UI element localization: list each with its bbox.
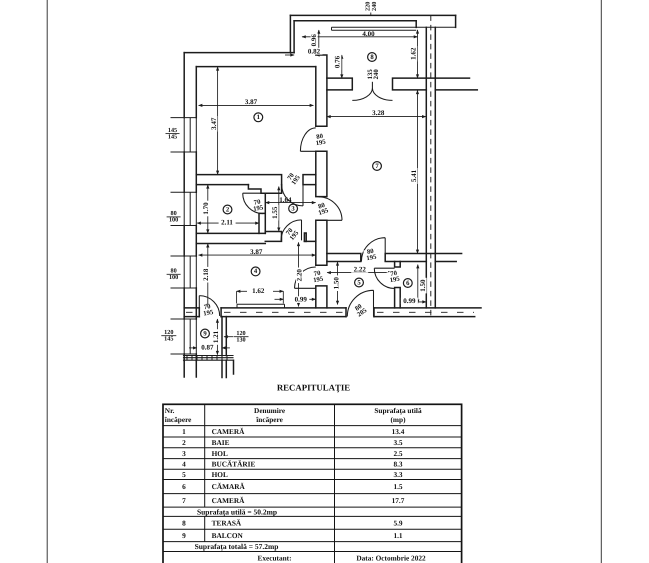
- svg-text:3: 3: [182, 449, 186, 458]
- table row 5 HOL 3.3: [182, 470, 403, 479]
- terrace inner edge double line: [332, 27, 456, 30]
- dim 0.76: [341, 55, 343, 78]
- svg-text:1.21: 1.21: [212, 330, 220, 343]
- svg-text:3.5: 3.5: [393, 438, 402, 447]
- leader arrow for 120/130 label: [224, 336, 233, 338]
- label 1.50 room5 rotated: [332, 275, 340, 291]
- door D9 80/205 entrance room5: [347, 290, 373, 316]
- window label 80/100 lower: [167, 268, 181, 281]
- svg-text:13.4: 13.4: [392, 427, 405, 436]
- svg-text:1: 1: [257, 114, 260, 121]
- svg-text:3.3: 3.3: [393, 470, 402, 479]
- svg-text:CAMERĂ: CAMERĂ: [212, 427, 246, 436]
- label 1.62 window: [250, 287, 267, 295]
- dim 0.82 outward arrows: [285, 54, 325, 56]
- terrace bottom wall with door opening: [327, 78, 435, 90]
- svg-text:100: 100: [169, 274, 178, 281]
- room symbol 3: [289, 204, 298, 213]
- dim 1.55 room3: [278, 187, 280, 232]
- label 3.47 rotated: [210, 116, 218, 132]
- dim 3.87 room4: [199, 254, 316, 256]
- wall stubs below balcony: [184, 360, 233, 377]
- bottom wall door caps: [199, 308, 374, 317]
- room symbol 5: [355, 278, 364, 287]
- dim 2.11 room2: [197, 222, 259, 224]
- door D4 70/195 room3-room4: [281, 220, 302, 241]
- svg-text:240: 240: [371, 2, 378, 11]
- label 0.96 rotated: [310, 33, 318, 49]
- door D11 double 135/240 terrace: [352, 78, 392, 100]
- svg-text:2.18: 2.18: [202, 268, 210, 281]
- svg-text:1.62: 1.62: [252, 287, 265, 295]
- label 0.87 balcony: [199, 344, 216, 352]
- wall room1 bottom / room2 room3 top: [196, 175, 315, 185]
- svg-text:(mp): (mp): [391, 415, 407, 424]
- svg-text:3.47: 3.47: [210, 117, 218, 130]
- label 0.76 rotated: [334, 54, 342, 70]
- svg-text:6: 6: [182, 482, 186, 491]
- room symbol 2: [223, 205, 232, 214]
- svg-text:BAIE: BAIE: [212, 438, 230, 447]
- svg-text:2: 2: [182, 438, 186, 447]
- svg-text:145: 145: [168, 133, 177, 140]
- door label D10 70/195: [200, 303, 215, 318]
- door D4 jamb post: [304, 233, 306, 241]
- svg-text:2.11: 2.11: [221, 218, 233, 226]
- thick block left of door D5: [248, 185, 281, 194]
- svg-text:HOL: HOL: [212, 449, 228, 458]
- svg-text:7: 7: [182, 496, 186, 505]
- balcony right wall: [222, 317, 226, 356]
- wall: left exterior inner line: [195, 67, 197, 361]
- table row 8 TERASA 5.9: [182, 519, 403, 528]
- room symbol 4: [251, 267, 260, 276]
- svg-text:4: 4: [182, 460, 186, 469]
- svg-text:încăpere: încăpere: [164, 415, 192, 424]
- svg-text:1.64: 1.64: [279, 196, 292, 204]
- svg-text:1.50: 1.50: [419, 279, 427, 292]
- svg-text:1.55: 1.55: [271, 206, 279, 219]
- svg-text:1.5: 1.5: [393, 482, 402, 491]
- dim 1.50 room6: [417, 265, 419, 304]
- svg-text:CAMERĂ: CAMERĂ: [212, 496, 246, 505]
- svg-text:BALCON: BALCON: [212, 531, 244, 540]
- label 1.55 rotated: [271, 205, 279, 221]
- wall room2 right / room3 left: [259, 193, 265, 233]
- door D7 80/195 room7-room5: [361, 238, 385, 262]
- party wall right line: [434, 27, 436, 308]
- window label 120/130: [234, 330, 249, 343]
- label 2.18 rotated: [202, 267, 210, 283]
- wall room7 bottom / room5 room6 top: [327, 254, 435, 262]
- bottom exterior wall bottom line: [184, 316, 475, 318]
- svg-text:Denumire: Denumire: [254, 406, 286, 415]
- svg-text:240: 240: [373, 69, 380, 80]
- dim 1.21 balcony: [216, 319, 218, 355]
- label 0.99 room4: [292, 296, 309, 304]
- label 1.21 rotated: [212, 329, 220, 345]
- window label 80/100 upper: [167, 210, 181, 223]
- svg-text:3.87: 3.87: [250, 248, 263, 256]
- label 0.99 room6: [401, 297, 418, 305]
- table row executant / data: [257, 553, 426, 562]
- svg-text:Nr.: Nr.: [165, 406, 175, 415]
- dim 2.22 room5: [327, 272, 392, 274]
- svg-text:HOL: HOL: [212, 470, 228, 479]
- svg-text:0.82: 0.82: [308, 47, 321, 55]
- label 5.41 rotated: [410, 168, 418, 184]
- label 0.82: [306, 47, 323, 55]
- party wall left line: [425, 27, 427, 308]
- terrace parapet left wall: [290, 15, 294, 52]
- neighbour parapet jog verticals: [416, 15, 455, 27]
- window W4 120/145 left wall balcony: [171, 319, 197, 354]
- door label D1 80/195: [314, 133, 327, 148]
- label 135/240 terrace door rotated: [367, 67, 380, 82]
- window label 120/145: [161, 329, 176, 342]
- svg-text:1.1: 1.1: [393, 531, 402, 540]
- dim 0.99 room4: [275, 298, 316, 300]
- svg-text:CĂMARĂ: CĂMARĂ: [212, 482, 246, 491]
- svg-text:1: 1: [182, 427, 186, 436]
- svg-text:încăpere: încăpere: [255, 415, 283, 424]
- svg-text:1.70: 1.70: [202, 202, 210, 215]
- neighbour wall segment right of party wall at room5 level: [435, 254, 461, 262]
- dim 3.28 room7: [327, 116, 426, 118]
- wall room6 left with door D8: [395, 262, 401, 308]
- dim 3.87 room1: [199, 104, 314, 106]
- dim 3.47 room1: [217, 67, 219, 175]
- room symbol 7: [373, 162, 382, 171]
- room symbol 1: [254, 113, 263, 122]
- svg-text:Suprafaţa totală = 57.2mp: Suprafaţa totală = 57.2mp: [195, 542, 279, 551]
- svg-text:0.87: 0.87: [201, 344, 214, 352]
- page border left: [46, 0, 48, 563]
- room symbol 6: [403, 279, 412, 288]
- svg-text:0.99: 0.99: [295, 296, 308, 304]
- door label D5 70/195: [252, 198, 265, 213]
- terrace parapet top inner line: [294, 20, 416, 22]
- wall room2 room4 divider: [196, 233, 265, 243]
- svg-text:8: 8: [182, 519, 186, 528]
- door label D2 70/195: [285, 170, 302, 186]
- table row 7 CAMERA 17.7: [182, 496, 405, 505]
- svg-text:Executant:: Executant:: [257, 553, 291, 562]
- door D6 70/195 room4-room5: [295, 267, 316, 288]
- svg-text:RECAPITULAŢIE: RECAPITULAŢIE: [277, 382, 350, 392]
- window W2 80/100 left wall: [171, 192, 197, 225]
- svg-text:Suprafaţa utilă: Suprafaţa utilă: [374, 406, 422, 415]
- svg-text:9: 9: [182, 531, 186, 540]
- svg-text:1.50: 1.50: [332, 277, 340, 290]
- table header texts: [164, 406, 422, 424]
- window W3 80/100 left wall: [171, 256, 197, 288]
- table column line 2: [334, 404, 336, 563]
- svg-text:0.76: 0.76: [334, 55, 342, 68]
- door label D9 80/205: [351, 301, 369, 319]
- wall between room 1 and room 7: [316, 55, 327, 308]
- door D1 80/195 room1-room7: [300, 128, 315, 151]
- svg-text:4.00: 4.00: [362, 30, 375, 38]
- door label D3 80/195: [316, 201, 330, 217]
- door label D7 80/195: [363, 247, 378, 262]
- label 1.50 room6 rotated: [419, 278, 427, 294]
- dim 1.70 room2: [207, 185, 209, 233]
- dim 220/240 top leader: [370, 13, 372, 16]
- table row 6 CAMARA 1.5: [182, 482, 403, 491]
- svg-text:5: 5: [182, 470, 186, 479]
- dim 0.99 room6: [400, 301, 426, 303]
- dim 1.62 window room4: [237, 291, 284, 303]
- svg-text:Suprafaţa utilă = 50.2mp: Suprafaţa utilă = 50.2mp: [197, 507, 277, 516]
- svg-text:0.96: 0.96: [310, 34, 318, 47]
- dim 4.00 terrace width: [302, 36, 418, 38]
- svg-text:Data: Octombrie 2022: Data: Octombrie 2022: [356, 553, 426, 562]
- table outer border: [163, 404, 462, 563]
- terrace parapet top outer line: [290, 14, 455, 16]
- svg-text:5.41: 5.41: [410, 169, 418, 182]
- bottom exterior wall top line: [184, 307, 481, 309]
- svg-text:TERASĂ: TERASĂ: [212, 519, 242, 528]
- dim 1.50 room5: [337, 262, 339, 305]
- svg-text:BUCĂTĂRIE: BUCĂTĂRIE: [212, 460, 256, 469]
- dim 2.20 room4 right: [298, 242, 300, 306]
- label 2.22: [351, 265, 368, 273]
- door label D4 70/195: [284, 225, 301, 242]
- svg-text:145: 145: [164, 335, 173, 342]
- table row 1 CAMERA 13.4: [182, 427, 405, 436]
- table row 4 BUCATARIE 8.3: [182, 460, 403, 469]
- svg-text:17.7: 17.7: [392, 496, 405, 505]
- door D8 70/195 room5-room6: [374, 268, 394, 288]
- door label D8 70/195: [386, 269, 401, 284]
- svg-text:1.62: 1.62: [410, 47, 418, 60]
- door D3 80/195 room3-room7: [319, 197, 342, 220]
- window 1.62 in bottom wall: [237, 304, 285, 308]
- window W1 145/145 left wall: [171, 118, 197, 152]
- room symbol 8: [368, 53, 377, 62]
- dim 0.87 balcony outward arrows: [189, 347, 230, 349]
- page border right: [600, 0, 602, 563]
- dim 1.62 terrace: [417, 30, 419, 78]
- door D2 70/195 room1-room3: [282, 185, 303, 206]
- label 2.11: [219, 218, 236, 226]
- door label D6 70/195: [310, 269, 325, 284]
- svg-text:2.20: 2.20: [296, 269, 304, 282]
- label 2.20 rotated: [296, 268, 304, 284]
- wall: room 1 top, outer and inner: [184, 53, 316, 67]
- table horizontal lines: [163, 426, 462, 552]
- label 1.62 terrace rotated: [410, 46, 418, 62]
- table row 3 HOL 2.5: [182, 449, 403, 458]
- svg-text:2.22: 2.22: [354, 265, 367, 273]
- svg-text:0.99: 0.99: [403, 297, 416, 305]
- table column line 1: [204, 404, 206, 541]
- balcony railing: [184, 356, 234, 361]
- dim 5.41 room7: [417, 90, 419, 253]
- svg-text:8.3: 8.3: [393, 460, 402, 469]
- table row 2 BAIE 3.5: [182, 438, 403, 447]
- label 1.70 rotated: [202, 201, 210, 217]
- dim 2.18 room4: [207, 244, 209, 308]
- room symbol 9: [201, 329, 210, 338]
- wall room3 bottom with door D4: [265, 232, 316, 242]
- window label 145/145: [166, 127, 180, 140]
- svg-text:5.9: 5.9: [393, 519, 402, 528]
- door D10 70/195 room4-balcony: [199, 296, 219, 316]
- wall: left exterior outer line: [183, 53, 185, 361]
- dim 0.96: [318, 30, 320, 53]
- dim 1.64 room3: [266, 202, 316, 204]
- svg-text:2.5: 2.5: [393, 449, 402, 458]
- party dashed axis line: [430, 15, 432, 317]
- door D5 70/195 into room2: [243, 193, 263, 213]
- svg-text:3.87: 3.87: [245, 98, 258, 106]
- svg-text:100: 100: [169, 217, 178, 224]
- table row 9 BALCON 1.1: [182, 531, 403, 540]
- svg-text:3.28: 3.28: [372, 109, 385, 117]
- neighbour walls right of party wall upper: [435, 78, 477, 90]
- svg-text:130: 130: [236, 336, 245, 343]
- bottom wall dashed centreline: [186, 311, 474, 313]
